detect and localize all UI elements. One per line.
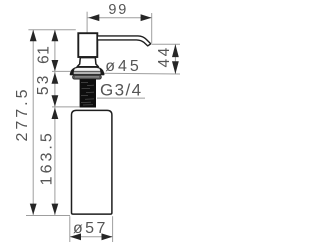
svg-text:ø57: ø57	[73, 220, 108, 237]
svg-text:44: 44	[156, 45, 173, 67]
svg-text:99: 99	[108, 2, 128, 18]
svg-text:277.5: 277.5	[14, 86, 31, 141]
svg-text:53: 53	[35, 73, 52, 95]
svg-text:61: 61	[36, 45, 53, 63]
svg-text:163.5: 163.5	[38, 130, 55, 185]
svg-text:ø45: ø45	[105, 58, 142, 75]
svg-text:G3/4: G3/4	[100, 80, 142, 99]
